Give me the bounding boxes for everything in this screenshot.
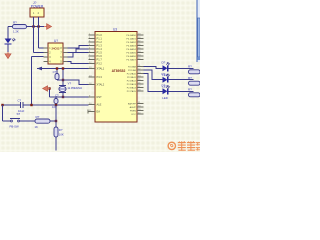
svg-text:P0.4/AD4: P0.4/AD4: [126, 48, 136, 51]
svg-text:P0.6/AD6: P0.6/AD6: [126, 55, 136, 58]
svg-text:P2.1/A9: P2.1/A9: [128, 69, 137, 72]
svg-text:P2.2/A10: P2.2/A10: [127, 73, 137, 76]
svg-text:R?: R?: [188, 65, 192, 69]
svg-text:P2.3/A11: P2.3/A11: [127, 76, 137, 79]
svg-text:R?: R?: [59, 128, 63, 132]
svg-text:P2.7/A15: P2.7/A15: [127, 90, 137, 93]
svg-text:24C02: 24C02: [52, 46, 60, 50]
svg-text:R?: R?: [13, 21, 17, 25]
svg-text:10K: 10K: [59, 133, 64, 137]
svg-text:PB-SW: PB-SW: [10, 124, 20, 128]
svg-text:ALE/P: ALE/P: [130, 106, 137, 109]
svg-text:U?: U?: [54, 39, 58, 43]
svg-text:P1.4: P1.4: [97, 47, 103, 51]
svg-text:Y?: Y?: [68, 81, 72, 85]
svg-text:1K: 1K: [35, 125, 39, 129]
svg-text:C?: C?: [53, 70, 57, 74]
svg-text:AT89S52: AT89S52: [112, 69, 126, 73]
svg-text:P3.2: P3.2: [97, 62, 103, 66]
svg-text:P3.3: P3.3: [97, 75, 103, 79]
svg-text:R?: R?: [36, 115, 40, 119]
svg-text:P0.5/AD5: P0.5/AD5: [126, 52, 136, 55]
svg-text:P0.2/AD2: P0.2/AD2: [126, 41, 136, 44]
svg-text:PSEN: PSEN: [130, 111, 136, 113]
svg-text:P1.6: P1.6: [97, 54, 103, 58]
svg-text:LED: LED: [162, 96, 167, 100]
svg-text:P0.0/AD0: P0.0/AD0: [126, 34, 136, 37]
svg-text:D?: D?: [162, 61, 166, 65]
svg-text:P1.3: P1.3: [97, 44, 103, 48]
svg-text:P1.7: P1.7: [97, 58, 103, 62]
svg-text:R?: R?: [188, 76, 192, 80]
svg-text:P1.1: P1.1: [97, 37, 103, 41]
svg-text:VCC: VCC: [131, 114, 136, 116]
svg-text:XTAL2: XTAL2: [97, 83, 105, 87]
svg-text:R?: R?: [188, 88, 192, 92]
svg-text:P2.0/A8: P2.0/A8: [128, 66, 137, 69]
svg-text:S?: S?: [17, 112, 21, 116]
svg-text:C?: C?: [55, 93, 59, 97]
svg-text:P1.0: P1.0: [97, 33, 103, 37]
svg-text:ALE: ALE: [97, 103, 102, 107]
svg-text:EA: EA: [97, 110, 101, 114]
svg-text:P0.1/AD1: P0.1/AD1: [126, 38, 136, 41]
svg-text:P0.7/AD7: P0.7/AD7: [126, 59, 136, 62]
svg-text:P1.5: P1.5: [97, 51, 103, 55]
svg-text:P2.6/A14: P2.6/A14: [127, 87, 137, 90]
svg-text:EA/VPP: EA/VPP: [128, 103, 136, 106]
svg-text:P2.4/A12: P2.4/A12: [127, 80, 137, 83]
svg-text:C?: C?: [18, 98, 22, 102]
svg-text:XTAL1: XTAL1: [97, 67, 105, 71]
svg-text:11.0592MHz: 11.0592MHz: [68, 86, 83, 90]
svg-text:P0.3/AD3: P0.3/AD3: [126, 45, 136, 48]
svg-text:RST: RST: [97, 95, 103, 99]
svg-text:POWER: POWER: [31, 5, 44, 9]
svg-text:P2.5/A13: P2.5/A13: [127, 83, 137, 86]
svg-text:1.2K: 1.2K: [13, 30, 19, 34]
svg-text:D?: D?: [162, 84, 166, 88]
svg-text:D?: D?: [162, 72, 166, 76]
svg-text:P1.2: P1.2: [97, 40, 103, 44]
svg-text:U3: U3: [113, 27, 117, 31]
